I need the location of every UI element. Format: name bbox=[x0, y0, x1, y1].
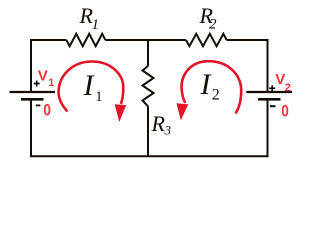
wire: left branch bottom with bottom-left corner bbox=[31, 100, 148, 156]
minus sign at V1 bbox=[36, 105, 41, 107]
battery V1 bottom plate (-) bbox=[21, 98, 44, 101]
resistor R1 bbox=[66, 34, 105, 46]
label V2 bbox=[275, 71, 291, 94]
wire: bottom right with bottom-right corner bbox=[148, 100, 268, 156]
svg-text:I: I bbox=[83, 69, 96, 102]
svg-text:0: 0 bbox=[43, 102, 51, 120]
svg-text:1: 1 bbox=[95, 89, 102, 105]
plus sign at V2 bbox=[269, 85, 275, 91]
wire: left branch top with top-left corner bbox=[31, 40, 66, 92]
label R2 bbox=[199, 3, 218, 33]
resistor R3 bbox=[143, 66, 154, 106]
label R1 bbox=[79, 3, 100, 33]
wire: middle branch lower bbox=[147, 106, 149, 156]
loop current I1 arc bbox=[59, 62, 124, 112]
svg-text:1: 1 bbox=[92, 17, 100, 33]
wire: middle branch upper bbox=[147, 39, 149, 66]
svg-text:3: 3 bbox=[164, 123, 172, 138]
battery V1 top plate (+) bbox=[10, 91, 56, 93]
svg-text:1: 1 bbox=[48, 77, 54, 89]
svg-text:I: I bbox=[200, 68, 213, 101]
label I1 bbox=[83, 69, 103, 105]
svg-text:2: 2 bbox=[212, 87, 220, 104]
svg-text:V: V bbox=[38, 68, 48, 85]
resistor R2 bbox=[186, 34, 227, 46]
label I2 bbox=[200, 68, 220, 104]
battery V2 top plate (+) bbox=[246, 91, 292, 93]
loop current I2 arrowhead bbox=[177, 103, 189, 120]
loop current I2 arc bbox=[182, 61, 242, 113]
loop current I1 arrowhead bbox=[115, 104, 127, 122]
svg-text:0: 0 bbox=[281, 103, 289, 121]
minus sign at V2 bbox=[270, 105, 276, 107]
battery V2 bottom plate (-) bbox=[258, 98, 281, 101]
label V1 bbox=[38, 68, 55, 89]
svg-text:2: 2 bbox=[285, 82, 291, 94]
plus sign at V1 bbox=[34, 81, 40, 87]
svg-text:2: 2 bbox=[209, 17, 217, 33]
wire: top right segment with top-right corner bbox=[227, 40, 268, 92]
label R3 bbox=[151, 111, 172, 138]
wire: top middle segment bbox=[105, 39, 186, 41]
svg-text:R: R bbox=[151, 111, 166, 136]
